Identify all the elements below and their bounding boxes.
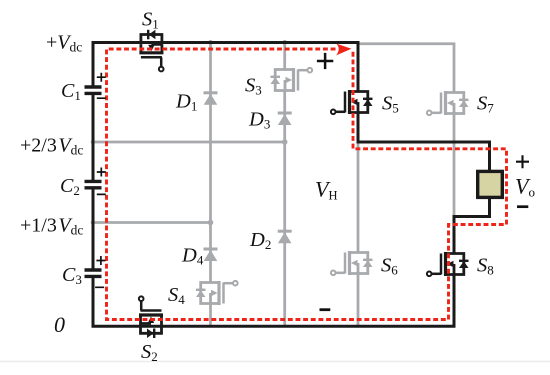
svg-text:C1: C1 (61, 80, 81, 103)
svg-text:+1/3Vdc: +1/3Vdc (20, 215, 83, 238)
svg-text:D4: D4 (181, 245, 204, 268)
svg-text:S4: S4 (168, 284, 185, 307)
svg-text:C3: C3 (62, 264, 82, 287)
svg-text:S6: S6 (381, 255, 398, 278)
svg-text:C2: C2 (60, 175, 80, 198)
svg-text:D1: D1 (175, 91, 197, 114)
svg-text:S2: S2 (141, 341, 158, 364)
svg-text:S5: S5 (382, 93, 399, 116)
svg-text:D3: D3 (248, 109, 270, 132)
svg-text:S1: S1 (142, 9, 159, 32)
svg-text:S8: S8 (477, 255, 494, 278)
svg-text:D2: D2 (249, 229, 271, 252)
svg-text:+Vdc: +Vdc (46, 32, 82, 55)
svg-text:Vo: Vo (515, 174, 535, 200)
svg-text:0: 0 (54, 312, 65, 337)
svg-text:VH: VH (315, 177, 337, 203)
svg-text:+2/3Vdc: +2/3Vdc (20, 135, 83, 158)
svg-text:S7: S7 (477, 93, 494, 116)
svg-text:S3: S3 (245, 75, 262, 98)
